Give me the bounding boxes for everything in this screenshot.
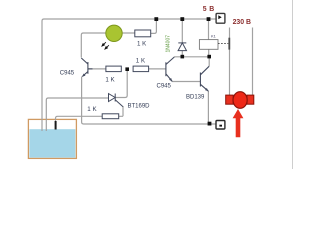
page edge line [292, 0, 294, 169]
wire bottom ground rail from Q1 emitter [82, 77, 216, 125]
wire Q3 collector up [208, 57, 210, 66]
relay coil K1 [199, 40, 218, 50]
svg-text:C945: C945 [157, 84, 172, 90]
wire probe 2 to thyristor anode [46, 98, 108, 131]
svg-text:BT169D: BT169D [128, 103, 151, 109]
svg-text:1 K: 1 K [137, 40, 147, 47]
node dot top rail / LED branch [154, 17, 158, 21]
svg-text:1 K: 1 K [87, 106, 97, 113]
wire 230V line left [229, 28, 231, 96]
wire thyristor gate lead to R3 [119, 106, 123, 116]
node dot relay bottom / Q3 collector [207, 55, 211, 59]
svg-text:1 K: 1 K [105, 76, 115, 83]
transistor Q1 C945 [81, 58, 92, 77]
relay switch contact on 230V line [228, 38, 230, 50]
probe electrode (thick) [55, 121, 57, 130]
wire R1-R2 node down to thyristor cathode [115, 69, 127, 97]
tank T1 [28, 119, 76, 158]
node dot top rail / diode branch [180, 17, 184, 21]
wire relay branch from top rail [208, 19, 210, 40]
svg-text:1N4007: 1N4007 [166, 35, 172, 53]
terminal 5V supply box [216, 13, 225, 23]
svg-text:C945: C945 [60, 71, 75, 77]
resistor R_LED 1K [135, 30, 151, 37]
wire top rail and left frame with probe 1 [42, 19, 216, 131]
wire Q2 collector rail to relay bottom [174, 56, 209, 58]
transistor Q2 C945 [166, 57, 174, 82]
svg-text:1 K: 1 K [136, 58, 146, 65]
pump flow arrow (red) [233, 109, 244, 137]
wire diode branch from top rail [181, 19, 183, 43]
terminal 0V box [216, 121, 225, 130]
wire R2 to Q2 base [149, 68, 166, 70]
node dot R1-R2 junction [125, 67, 129, 71]
thyristor U1 BT169D [109, 94, 124, 107]
LED arrows [102, 42, 109, 49]
LED D2 (green indicator) [106, 25, 122, 41]
terminal 0V mark [219, 125, 222, 127]
wire Q3 emitter down to ground rail [207, 91, 209, 124]
diode D1 1N4007 (flyback) [178, 43, 186, 51]
terminal 5V arrow [218, 15, 221, 19]
node dot top rail / relay branch [207, 17, 211, 21]
resistor R2 1K [133, 66, 149, 72]
resistor R3 1K (gate) [102, 114, 119, 119]
svg-text:K1: K1 [211, 34, 217, 39]
node dot diode bottom [181, 55, 185, 59]
motor M1 (pump) [226, 92, 254, 109]
wire relay bottom to collector rail [208, 49, 210, 56]
wire Q2 emitter to Q3 base [172, 81, 200, 83]
wire Q1 collector to LED [81, 33, 135, 58]
transistor Q3 BD139 [200, 66, 209, 91]
wire probe 3 to resistor R3 [56, 116, 103, 121]
wire 230V line right [252, 28, 254, 96]
svg-text:5 B: 5 B [203, 6, 215, 13]
svg-text:BD139: BD139 [186, 94, 205, 100]
svg-text:230 B: 230 B [233, 19, 251, 26]
wire Q1 base to R1 [88, 68, 106, 70]
wire R_LED to top rail [151, 19, 157, 33]
resistor R1 1K [106, 66, 121, 72]
relay actuation dashed link [218, 43, 228, 45]
wire diode to collector rail [181, 51, 183, 57]
node dot ground rail / Q3 emitter [208, 122, 212, 126]
